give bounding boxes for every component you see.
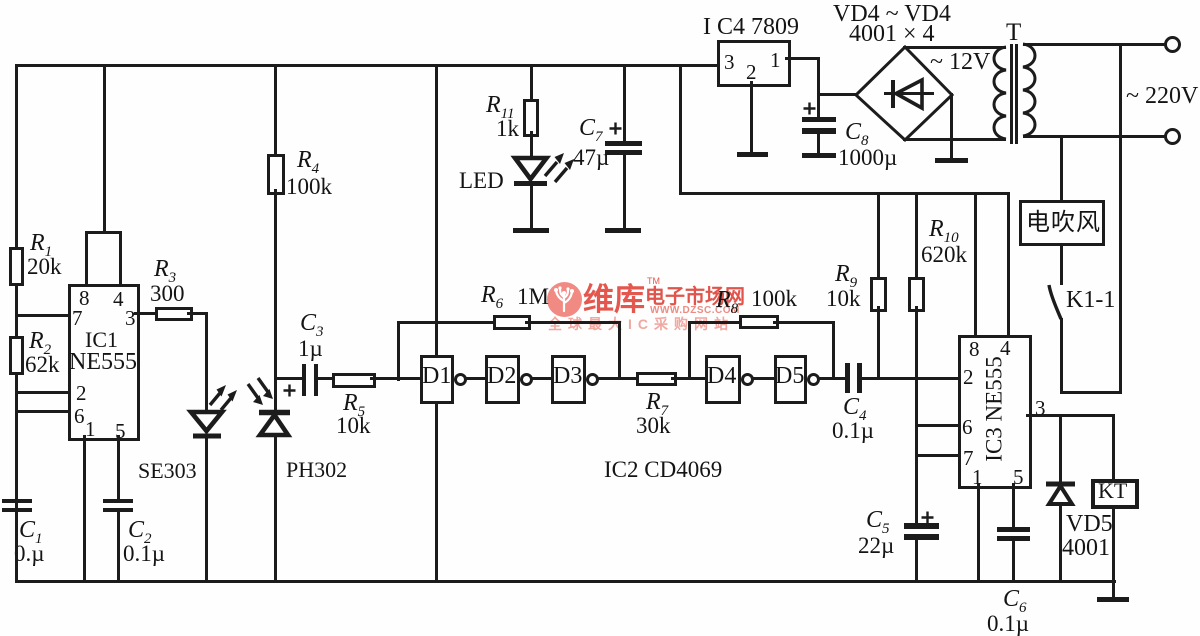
- label R5: [343, 391, 365, 415]
- pin 7 IC3: [963, 448, 974, 469]
- plus sign C5: [921, 511, 934, 524]
- wire signal node to C3: [274, 377, 303, 380]
- wire top +9V rail: [15, 64, 718, 67]
- wire D3 to R7: [598, 377, 636, 380]
- inverter D4: [705, 355, 741, 404]
- wire IC3 pin4 top lead: [1007, 192, 1010, 335]
- wire KT to ground: [1112, 505, 1115, 598]
- capacitor C3: [302, 364, 306, 396]
- wire top rail down to C7: [623, 64, 626, 142]
- value 0.1µ: [832, 419, 874, 442]
- label T: [1006, 20, 1021, 45]
- bubble D2: [520, 373, 533, 386]
- wire C7 down to ground: [623, 155, 626, 229]
- value 0.1µ: [123, 542, 165, 565]
- wire IC3 pin7 to R10 line: [915, 454, 958, 457]
- resistor R4: [267, 154, 285, 195]
- wire from top rail down to mid rail: [679, 64, 682, 195]
- capacitor C4: [845, 363, 850, 393]
- wire D4 to D5: [753, 377, 774, 380]
- pin 3 IC3: [1035, 398, 1046, 419]
- wire R6 left lead: [397, 321, 493, 324]
- wire IC3 pin3 output: [1026, 414, 1114, 417]
- wire IC3 pin6 to R10 line: [915, 424, 958, 427]
- wire K1-1 branch vertical from top wire: [1119, 43, 1122, 394]
- label IC4 7809: [703, 15, 799, 39]
- label NE555: [69, 350, 137, 374]
- value 0.1µ: [987, 612, 1029, 635]
- pin 2 IC4: [746, 62, 757, 83]
- wire C6 to ground rail: [1012, 541, 1015, 582]
- wire branch up to R6: [397, 321, 400, 381]
- capacitor C8: [802, 117, 836, 122]
- wire VD5 to ground rail: [1059, 504, 1062, 582]
- watermark www.dzsc.com: [650, 306, 740, 316]
- label C2: [128, 518, 152, 542]
- inverter D1: [420, 355, 454, 404]
- appliance box 电吹风: [1019, 200, 1105, 246]
- label SE303: [138, 460, 197, 482]
- label VD5: [1066, 512, 1113, 536]
- label K1-1: [1066, 288, 1115, 312]
- capacitor C6: [997, 527, 1030, 532]
- watermark 维库: [583, 284, 645, 315]
- pin 2 IC1: [76, 383, 87, 404]
- label IC1: [85, 329, 118, 351]
- op-amp IC1 NE555 box: [68, 284, 140, 441]
- wire R10 down to C5: [915, 306, 918, 525]
- wire pin1 IC1 down to ground rail: [83, 435, 86, 582]
- plus sign C7: [609, 122, 622, 135]
- wire long vertical rail lower part: [435, 404, 438, 582]
- label PH302: [286, 459, 347, 481]
- wire IC3 pin8 top lead: [974, 192, 977, 335]
- transformer core: [1010, 44, 1013, 144]
- wire D5 to C4: [819, 377, 846, 380]
- wire IC3 pin1 to ground rail: [977, 483, 980, 582]
- pin 8 IC1: [79, 288, 90, 309]
- LED indicator: [509, 140, 577, 192]
- wire R9 bottom lead to pin2 line: [877, 306, 880, 380]
- value 62k: [25, 353, 60, 376]
- wire node to bridge left corner: [817, 93, 858, 96]
- resistor R8: [739, 315, 779, 329]
- ground under IC4: [737, 152, 768, 157]
- bubble D3: [586, 373, 599, 386]
- pin 1 IC4: [770, 50, 781, 71]
- transformer secondary coil: [1022, 44, 1036, 138]
- wire pin3 line down to KT: [1112, 414, 1115, 479]
- wire R8 branch down to node: [832, 321, 835, 378]
- label R10: [929, 217, 959, 241]
- resistor R11: [530, 64, 533, 99]
- label R2: [29, 329, 51, 353]
- pin 1 IC1: [85, 419, 96, 440]
- value 100k: [751, 287, 797, 310]
- value 1M: [517, 285, 549, 308]
- terminal circle top: [1164, 36, 1181, 53]
- wire bottom ground rail: [15, 580, 1116, 583]
- pin 6 IC3: [962, 417, 973, 438]
- ground under C8: [802, 153, 836, 158]
- timer IC3 NE555 box: [958, 335, 1032, 489]
- value 47µ: [573, 146, 609, 169]
- pin 8 IC3: [969, 339, 980, 360]
- wire D2 to D3: [532, 377, 551, 380]
- wire C3 to R5: [318, 377, 332, 380]
- wire C8 down to ground: [817, 134, 820, 154]
- node box tying IC1 pins 8 and 4: [85, 231, 122, 287]
- regulator IC4 7809 box: [717, 40, 791, 87]
- wire bridge top to transformer primary top: [903, 46, 1006, 49]
- wire down to SE303: [205, 312, 208, 412]
- wire LED down to ground: [530, 185, 533, 229]
- label ~ 12V: [930, 50, 990, 74]
- bubble D5: [807, 373, 820, 386]
- resistor R7: [636, 372, 677, 386]
- label R1: [30, 231, 52, 255]
- bubble D1: [454, 373, 467, 386]
- label R7: [646, 390, 668, 414]
- inverter D3: [551, 355, 586, 404]
- value 10k: [336, 414, 371, 437]
- label C8: [845, 120, 869, 144]
- wire pin2 to left rail: [15, 391, 68, 394]
- watermark logo circle: [546, 281, 583, 318]
- label R8: [716, 288, 738, 312]
- resistor R6: [493, 315, 531, 330]
- ground under C7: [605, 228, 641, 233]
- wire R7 to D4: [671, 377, 705, 380]
- wire R8 right lead: [773, 321, 835, 324]
- plus sign C8: [803, 102, 816, 115]
- pin 5 IC1: [115, 421, 126, 442]
- capacitor C1: [2, 499, 32, 503]
- switch K1-1: [1044, 283, 1064, 323]
- pin 2 IC3: [963, 367, 974, 388]
- pin 5 IC3: [1013, 467, 1024, 488]
- wire C2 to ground rail: [117, 512, 120, 582]
- wire R6 branch down to D3-R7 node: [618, 321, 621, 378]
- resistor R10: [908, 277, 925, 312]
- value 1µ: [298, 337, 323, 360]
- resistor R9: [870, 277, 887, 312]
- label C7: [579, 116, 603, 140]
- label R6: [481, 283, 503, 307]
- value 20k: [27, 255, 62, 278]
- wire bridge right corner down: [950, 93, 953, 158]
- ground under KT: [1097, 597, 1129, 602]
- wire D1 to D2: [466, 377, 485, 380]
- wire pin7 to left rail: [15, 314, 68, 317]
- terminal circle bottom: [1164, 128, 1181, 145]
- wire secondary top to terminal: [1023, 43, 1165, 46]
- resistor R3: [155, 307, 193, 321]
- pin 4 IC3: [1000, 338, 1011, 359]
- label IC2 CD4069: [604, 458, 722, 481]
- wire hair dryer top: [1060, 135, 1063, 200]
- pin 1 IC3: [972, 467, 983, 488]
- pin 3 IC1: [125, 308, 136, 329]
- wire R11 to LED: [530, 131, 533, 159]
- watermark 电子市场网: [645, 287, 745, 307]
- label C3: [300, 311, 324, 335]
- resistor R5: [332, 373, 376, 388]
- ground under LED: [513, 228, 549, 233]
- value 620k: [921, 243, 967, 266]
- wire mid +9V rail: [679, 192, 1008, 195]
- wire from top rail down to IC1 pins 8/4 box: [103, 64, 106, 232]
- bubble D4: [741, 373, 754, 386]
- wire IC3 pin5 down: [1012, 483, 1015, 527]
- value 1k: [496, 117, 519, 140]
- wire branch up to R8: [688, 321, 691, 378]
- label C5: [866, 508, 890, 532]
- label C4: [843, 395, 867, 419]
- wire R8 left lead: [688, 321, 739, 324]
- wire pin1 node down: [817, 57, 820, 117]
- pin 6 IC1: [74, 406, 85, 427]
- wire bridge bottom to transformer primary bottom: [903, 138, 1006, 141]
- label R3: [154, 257, 176, 281]
- label ~ 220V: [1126, 84, 1198, 108]
- label R9: [835, 262, 857, 286]
- resistor R1: [9, 247, 24, 286]
- value 1000µ: [838, 146, 897, 169]
- wire C1 to ground rail: [15, 512, 18, 582]
- wire VD5 top lead: [1059, 414, 1062, 483]
- wire C4 to IC3 pin2: [862, 377, 958, 380]
- wire hair dryer bottom to switch: [1060, 243, 1063, 285]
- watermark 全球最大IC采购网站: [548, 317, 734, 331]
- inverter D5: [774, 355, 807, 404]
- label R11: [486, 93, 515, 117]
- value 0.µ: [14, 542, 45, 565]
- diode VD5: [1044, 481, 1077, 507]
- capacitor C2: [103, 499, 133, 503]
- resistor R2: [9, 336, 24, 375]
- relay coil KT box: [1091, 479, 1139, 509]
- value 22µ: [858, 534, 894, 557]
- value 30k: [636, 414, 671, 437]
- watermark TM: [647, 277, 660, 286]
- photodiode PH302: [242, 376, 294, 438]
- label IC3 NE555 rotated: [983, 356, 1006, 461]
- wire R10 top lead: [915, 192, 918, 277]
- capacitor C5: [904, 523, 939, 529]
- bridge rectifier VD4 x4: [854, 45, 954, 142]
- pin 4 IC1: [113, 289, 124, 310]
- transformer T primary coil: [993, 47, 1007, 141]
- label LED: [459, 169, 504, 192]
- value 100k: [286, 175, 332, 198]
- wire secondary bottom to terminal: [1023, 135, 1165, 138]
- wire R5 to D1: [370, 377, 420, 380]
- wire long vertical rail upper part: [435, 64, 438, 355]
- plus sign C3: [283, 384, 296, 397]
- wire left rail: [15, 64, 18, 583]
- wire C5 to ground rail: [915, 539, 918, 583]
- wire pin3 IC1 to R3: [134, 312, 155, 315]
- label C6: [1003, 587, 1027, 611]
- wire IC4 pin1 right: [785, 57, 820, 60]
- value 10k: [826, 287, 861, 310]
- ground under bridge: [935, 158, 968, 163]
- wire from top rail down to R4: [274, 64, 277, 154]
- label 4001 x 4: [849, 22, 935, 46]
- wire R6 right lead: [525, 321, 620, 324]
- wire switch to bottom horizontal: [1060, 318, 1063, 394]
- wire pin5 IC1 down: [117, 435, 120, 499]
- label R4: [297, 148, 319, 172]
- label C1: [19, 518, 43, 542]
- wire pin6 to left rail: [15, 410, 68, 413]
- wire IC4 pin2 down: [750, 81, 753, 152]
- wire R4 down to PH302: [274, 189, 277, 411]
- wire SE303 to ground rail: [205, 437, 208, 582]
- inverter D2: [485, 355, 520, 404]
- value 4001: [1062, 536, 1110, 560]
- wire K1-1 bottom horizontal: [1060, 391, 1122, 394]
- value 300: [150, 282, 185, 305]
- wire PH302 to ground rail: [274, 436, 277, 582]
- LED SE303: [186, 378, 242, 440]
- pin 7 IC1: [72, 308, 83, 329]
- pin 3 IC4: [724, 52, 735, 73]
- capacitor C7: [605, 141, 642, 146]
- wire R9 top lead: [877, 192, 880, 277]
- wire R3 to SE303 branch: [187, 312, 207, 315]
- label VD4 ~ VD4: [833, 2, 951, 26]
